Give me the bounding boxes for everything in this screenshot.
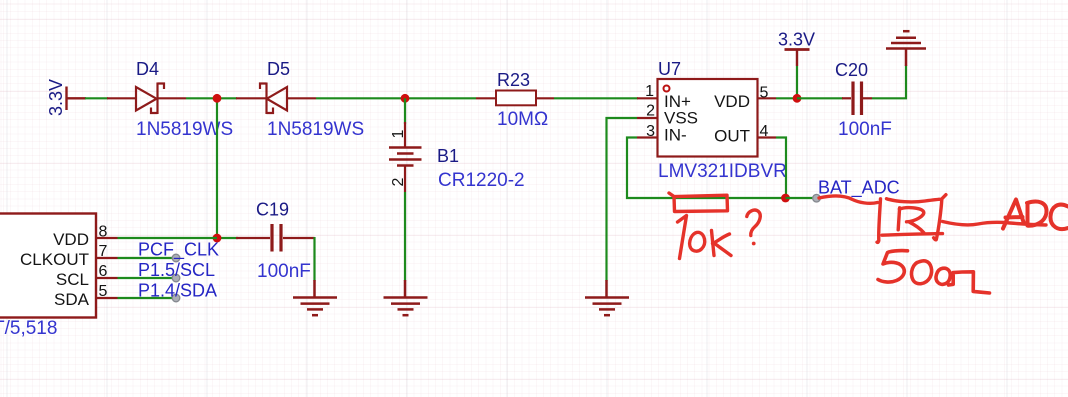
IC PCF8563 (left, partial) <box>0 214 96 318</box>
svg-text:P1.4/SDA: P1.4/SDA <box>138 281 217 301</box>
annotation: 10k? <box>678 210 761 258</box>
pin 5 (U7) <box>758 97 777 99</box>
svg-text:3: 3 <box>646 123 655 140</box>
pin 6 (PCF) <box>96 277 118 279</box>
pin 1 (U7) <box>637 97 658 99</box>
wire VDD to node C <box>776 97 797 99</box>
wire pin5 <box>118 297 177 299</box>
ground (top right, flipped) <box>886 31 926 66</box>
wire pin6 <box>118 277 177 279</box>
wire C20 to ground <box>872 65 906 98</box>
pin 3 (U7) <box>637 136 658 138</box>
svg-text:VDD: VDD <box>53 230 89 249</box>
svg-text:CLKOUT: CLKOUT <box>20 250 89 269</box>
svg-text:5: 5 <box>99 283 108 300</box>
wire B1 to ground <box>404 192 406 281</box>
capacitor C19 100nF <box>236 224 315 252</box>
wire node A to D5 <box>217 97 237 99</box>
wire node C up <box>796 66 798 98</box>
pin1 indicator circle <box>664 86 670 92</box>
wire node B to R23 <box>405 97 476 99</box>
svg-text:T/5,518: T/5,518 <box>0 318 57 339</box>
svg-text:5: 5 <box>760 85 769 102</box>
svg-text:1: 1 <box>390 129 407 138</box>
battery B1 CR1220-2 <box>404 98 406 124</box>
ground (VSS) <box>585 280 629 315</box>
svg-text:2: 2 <box>390 177 407 186</box>
junction node D <box>781 194 790 203</box>
pin 7 (PCF) <box>96 257 118 259</box>
annotation: ADC text <box>1003 200 1068 230</box>
wire pin7 <box>118 257 177 259</box>
annotation: 500Ω <box>878 251 990 293</box>
svg-text:8: 8 <box>99 224 108 241</box>
svg-text:10MΩ: 10MΩ <box>497 109 548 130</box>
wire node D to BAT_ADC <box>786 197 817 199</box>
wire 3.3V to D4 <box>85 97 108 99</box>
svg-text:PCF_CLK: PCF_CLK <box>138 240 219 261</box>
svg-text:1N5819WS: 1N5819WS <box>267 119 364 140</box>
svg-text:D4: D4 <box>136 59 159 79</box>
unconnected end pin5 <box>172 294 180 302</box>
junction node B <box>401 94 410 103</box>
svg-text:3.3V: 3.3V <box>778 30 815 50</box>
power port 3.3V (top) <box>785 50 810 67</box>
annotation: red box on feedback wire <box>669 193 728 212</box>
resistor R23 <box>476 91 554 106</box>
svg-text:R23: R23 <box>497 70 530 90</box>
wire OUT down to node D <box>776 138 786 199</box>
pin 2 (U7) <box>637 117 658 119</box>
wire VSS to ground <box>607 118 638 281</box>
pin 8 (PCF) <box>96 237 118 239</box>
unconnected end BAT_ADC <box>813 194 821 202</box>
unconnected end pin6 <box>172 274 180 282</box>
wire C19 to ground <box>313 237 315 281</box>
diode D5 (1N5819WS) <box>236 83 316 115</box>
svg-text:4: 4 <box>760 123 769 140</box>
wire pin8 to node E <box>118 237 218 239</box>
svg-text:OUT: OUT <box>714 127 750 146</box>
svg-text:100nF: 100nF <box>838 119 892 140</box>
capacitor C20 100nF <box>797 97 843 99</box>
power port 3.3V (left) <box>67 87 87 111</box>
svg-text:CR1220-2: CR1220-2 <box>438 170 525 191</box>
svg-text:3.3V: 3.3V <box>46 79 66 116</box>
svg-text:P1.5/SCL: P1.5/SCL <box>138 260 215 280</box>
svg-text:1: 1 <box>645 83 654 100</box>
wire node E to C19 <box>217 237 238 239</box>
svg-text:VDD: VDD <box>714 92 750 111</box>
junction node A <box>213 94 222 103</box>
svg-text:C20: C20 <box>835 60 868 80</box>
wire R23 to U7 pin1 <box>554 97 638 99</box>
pin 5 (PCF) <box>96 297 118 299</box>
annotation: resistor R sketch <box>877 195 946 243</box>
svg-text:2: 2 <box>646 103 655 120</box>
wire D4 to node A <box>186 97 221 99</box>
ground (B1) <box>384 280 428 315</box>
svg-text:D5: D5 <box>267 59 290 79</box>
diode D4 (1N5819WS) <box>107 83 186 115</box>
annotation: lead to ADC <box>943 222 1047 226</box>
svg-text:6: 6 <box>99 263 108 280</box>
svg-text:U7: U7 <box>658 59 681 79</box>
junction node E <box>213 234 222 243</box>
svg-text:SCL: SCL <box>56 270 89 289</box>
svg-text:LMV321IDBVR: LMV321IDBVR <box>658 161 787 182</box>
svg-text:B1: B1 <box>437 146 459 166</box>
op-amp U7 LMV321IDBVR <box>658 79 758 157</box>
svg-text:1N5819WS: 1N5819WS <box>136 119 233 140</box>
svg-text:IN-: IN- <box>664 126 687 145</box>
unconnected end pin7 <box>172 254 180 262</box>
annotation: squiggle to resistor <box>819 196 878 203</box>
wire D5 to node B <box>316 97 405 99</box>
svg-text:C19: C19 <box>256 200 289 220</box>
wire node A down to node E <box>216 98 218 238</box>
svg-text:SDA: SDA <box>54 290 90 309</box>
ground (C19) <box>293 280 337 315</box>
junction node C <box>793 94 802 103</box>
pin 4 (U7) <box>758 136 777 138</box>
svg-text:100nF: 100nF <box>257 261 311 282</box>
svg-text:7: 7 <box>99 243 108 260</box>
wire IN- feedback <box>627 138 786 199</box>
